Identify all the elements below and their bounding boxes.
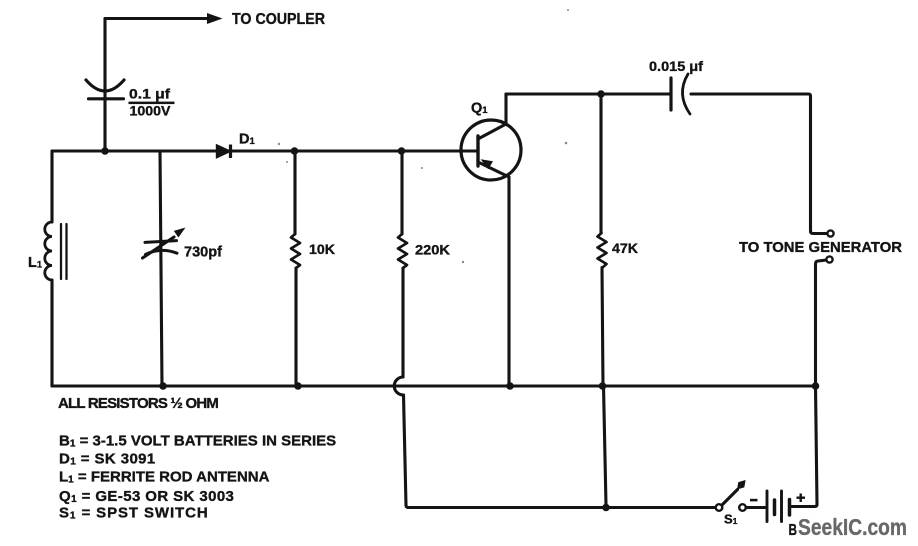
svg-text:B: B: [789, 522, 798, 539]
svg-text:D1: D1: [239, 132, 255, 148]
svg-text:L1: L1: [28, 255, 43, 271]
svg-text:0.1 μf: 0.1 μf: [129, 86, 171, 101]
svg-text:10K: 10K: [309, 241, 335, 257]
svg-text:L1 = FERRITE ROD ANTENNA: L1 = FERRITE ROD ANTENNA: [59, 469, 270, 486]
svg-text:0.015 μf: 0.015 μf: [649, 59, 704, 74]
svg-text:47K: 47K: [612, 240, 638, 256]
svg-text:TO TONE GENERATOR: TO TONE GENERATOR: [739, 239, 902, 256]
svg-text:TO COUPLER: TO COUPLER: [232, 11, 325, 28]
svg-text:D1 = SK 3091: D1 = SK 3091: [59, 451, 156, 468]
svg-text:ALL RESISTORS ½ OHM: ALL RESISTORS ½ OHM: [58, 395, 218, 412]
svg-text:1000V: 1000V: [130, 104, 171, 119]
svg-text:Q1 = GE-53 OR SK 3003: Q1 = GE-53 OR SK 3003: [59, 488, 234, 505]
svg-text:220K: 220K: [415, 242, 450, 258]
svg-text:S1 = SPST SWITCH: S1 = SPST SWITCH: [59, 505, 209, 522]
svg-text:S1: S1: [724, 512, 738, 527]
svg-text:SeekIC.com: SeekIC.com: [798, 514, 907, 540]
svg-text:B1 = 3-1.5 VOLT BATTERIES IN S: B1 = 3-1.5 VOLT BATTERIES IN SERIES: [59, 433, 336, 450]
svg-text:730pf: 730pf: [184, 244, 223, 261]
svg-text:Q1: Q1: [471, 101, 488, 117]
